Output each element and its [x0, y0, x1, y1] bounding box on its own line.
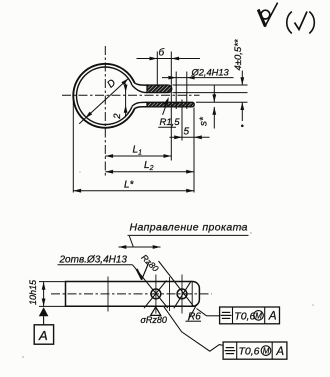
- rolling direction double arrow: [119, 245, 161, 249]
- hole 2 Ø3,4: [177, 289, 187, 299]
- extension line circle left edge: [72, 100, 74, 193]
- dimension 10h15 (blank width): [28, 279, 46, 306]
- dimension D (diameter arrow across ring): [79, 77, 128, 123]
- leader from holes note through hole 1: [133, 265, 168, 308]
- extension line bottom strip top edge: [196, 101, 248, 103]
- dimension 4±0,5** (gap between strips): [233, 39, 244, 127]
- svg-text:А: А: [275, 346, 284, 358]
- dimension Ø2,4H13 (hole diameter callout): [162, 67, 234, 79]
- svg-text:4±0,5**: 4±0,5**: [233, 39, 244, 70]
- svg-text:L*: L*: [124, 180, 135, 191]
- svg-text:2: 2: [112, 113, 123, 120]
- dimension s* (strip thickness): [199, 85, 217, 129]
- radius R6 label and leader: [186, 304, 202, 322]
- svg-text:R1,5: R1,5: [160, 117, 181, 128]
- horizontal centerline: [62, 94, 200, 96]
- extension line strip end x=194: [193, 108, 195, 193]
- scan speck 4: [22, 356, 24, 358]
- flat blank outline (development) with R6 corners: [66, 282, 200, 307]
- roughness Rz80 on top edge: [137, 252, 161, 279]
- extension line at x=171.3 (top strip end): [170, 52, 172, 161]
- hole 1 Ø3,4: [151, 289, 161, 299]
- note 2отв.Ø3,4Н13 (two holes): [58, 254, 133, 265]
- tolerance frame 2 (symmetry T0,6 M | A): [223, 342, 287, 359]
- datum A symbol: [34, 307, 53, 344]
- bend line 1: [107, 277, 109, 312]
- svg-text:2отв.Ø3,4Н13: 2отв.Ø3,4Н13: [59, 254, 128, 265]
- svg-text:D: D: [105, 77, 118, 90]
- scan speck 5: [79, 171, 80, 172]
- svg-text:s*: s*: [199, 116, 210, 126]
- svg-text:Ø2,4H13: Ø2,4H13: [191, 67, 230, 77]
- scan speck 1: [241, 226, 245, 229]
- extension line hole left edge: [175, 72, 177, 110]
- extension line top strip top edge: [173, 84, 248, 86]
- extension line at x=157.3: [156, 52, 158, 87]
- extension line hole centerline: [181, 100, 183, 141]
- svg-text:Т0,6: Т0,6: [234, 310, 255, 322]
- note 'Направление проката' (rolling direction): [128, 222, 249, 247]
- extension line top strip bottom edge: [173, 92, 248, 94]
- roughness note (√) in parentheses: [287, 12, 315, 34]
- svg-text:σRz80: σRz80: [141, 315, 167, 325]
- ring (clamp loop, outer and inner circle): [73, 64, 134, 128]
- svg-text:L1: L1: [133, 145, 143, 157]
- tolerance frame 1 (symmetry T0,6 M | A): [220, 307, 280, 324]
- dimension L2: [105, 160, 194, 174]
- svg-text:Rz80: Rz80: [139, 252, 160, 273]
- svg-text:10h15: 10h15: [28, 279, 38, 305]
- diagonal leader through hole 2 (from Rz80): [159, 261, 194, 307]
- bottom strip (hatched section) and neck curves: [132, 102, 194, 108]
- scan speck 2: [250, 232, 251, 233]
- svg-text:А: А: [268, 311, 277, 323]
- bend line 2: [169, 277, 171, 311]
- dimension 2 (slot width at neck): [112, 83, 128, 119]
- radius R1,5 leader and label: [158, 97, 180, 128]
- tangent line at rounded end: [191, 282, 193, 307]
- svg-text:М: М: [263, 347, 270, 356]
- tolerance frame 2 leader: [164, 307, 223, 351]
- dimension L* (overall length): [73, 180, 194, 193]
- dimension 5 (hole center to strip end): [170, 126, 210, 139]
- dimension L1: [105, 145, 171, 158]
- hole 2 vertical centerline: [181, 275, 183, 314]
- extension line hole right edge: [186, 72, 188, 110]
- svg-text:Направление проката: Направление проката: [130, 222, 248, 234]
- extension line bottom edge left: [39, 305, 67, 307]
- vertical centerline: [104, 46, 106, 177]
- svg-text:б: б: [159, 47, 165, 59]
- svg-text:Т0,6: Т0,6: [239, 346, 260, 358]
- svg-text:А: А: [38, 328, 48, 343]
- surface roughness symbol (check with circle): [258, 3, 277, 27]
- diagonal through hole 2: [174, 281, 192, 309]
- svg-text:5: 5: [184, 126, 190, 137]
- top strip (hatched section) with rounded end and neck curves: [132, 83, 172, 93]
- tolerance frame 1 leader: [197, 309, 220, 316]
- svg-text:М: М: [255, 311, 262, 320]
- dimension б (flat length of top strip): [137, 47, 201, 61]
- svg-text:L2: L2: [144, 160, 154, 172]
- extension line top edge left: [39, 281, 67, 283]
- scan speck 3: [312, 304, 314, 306]
- hole 1 vertical centerline: [155, 275, 157, 314]
- blank centerline: [51, 293, 212, 295]
- roughness mark σRz80 on bottom edge: [141, 307, 167, 325]
- diagonal through hole 1: [144, 281, 167, 309]
